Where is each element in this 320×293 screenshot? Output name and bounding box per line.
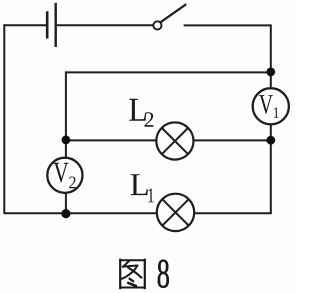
junction node (right, V1 lower / L2 right) [266, 136, 275, 145]
wire inner left vertical upper (corner to node) [65, 72, 67, 140]
wire bottom-left segment (corner to lamp L1) [4, 212, 157, 214]
wire bottom-right segment (lamp L1 to bottom-right corner) [194, 212, 272, 214]
wire right vertical upper (corner down to node) [270, 24, 272, 72]
junction node (right top, V1 upper) [266, 68, 275, 77]
wire inner horizontal (top of parallel section) [66, 72, 271, 73]
battery B (short negative plate) [46, 11, 49, 38]
label V2 (voltmeter V2 text) [53, 163, 75, 188]
caption numeral 8 [158, 260, 169, 288]
wire right vertical lower (node down to bottom corner) [270, 140, 272, 213]
wire node to voltmeter V1 top [270, 72, 272, 88]
lamp L2 cross stroke 2 [162, 128, 188, 154]
junction node (bottom, V2 lower) [61, 209, 70, 218]
caption character 图 (drawn) [119, 259, 146, 290]
label V1 (voltmeter V1 text) [259, 95, 279, 118]
wire lamp L2 branch right [194, 139, 271, 141]
wire voltmeter V2 bottom to bottom node [65, 193, 67, 213]
switch S pivot circle [153, 21, 161, 29]
lamp L1 circle [157, 194, 194, 231]
wire top-left segment (left corner to battery) [4, 24, 47, 26]
switch S lever arm (open) [161, 4, 187, 22]
label L2 (lamp L2 text) [129, 99, 153, 127]
wire left outer vertical [3, 24, 5, 213]
lamp L1 cross stroke 2 [162, 199, 188, 225]
battery B (long positive plate) [55, 3, 57, 47]
wire battery to switch [57, 24, 153, 26]
lamp L1 cross stroke 1 [162, 199, 188, 225]
junction node (inner left, L2 left) [62, 136, 71, 145]
voltmeter V2 circle [47, 158, 82, 193]
wire voltmeter V1 bottom to node [270, 124, 272, 140]
wire node to voltmeter V2 top [65, 140, 67, 158]
lamp L2 cross stroke 1 [162, 128, 188, 154]
lamp L2 circle [156, 122, 193, 159]
voltmeter V1 circle [253, 88, 289, 124]
label L1 (lamp L1 text) [131, 174, 154, 202]
wire lamp L2 branch left [66, 139, 156, 141]
wire switch to top-right corner [184, 24, 271, 26]
